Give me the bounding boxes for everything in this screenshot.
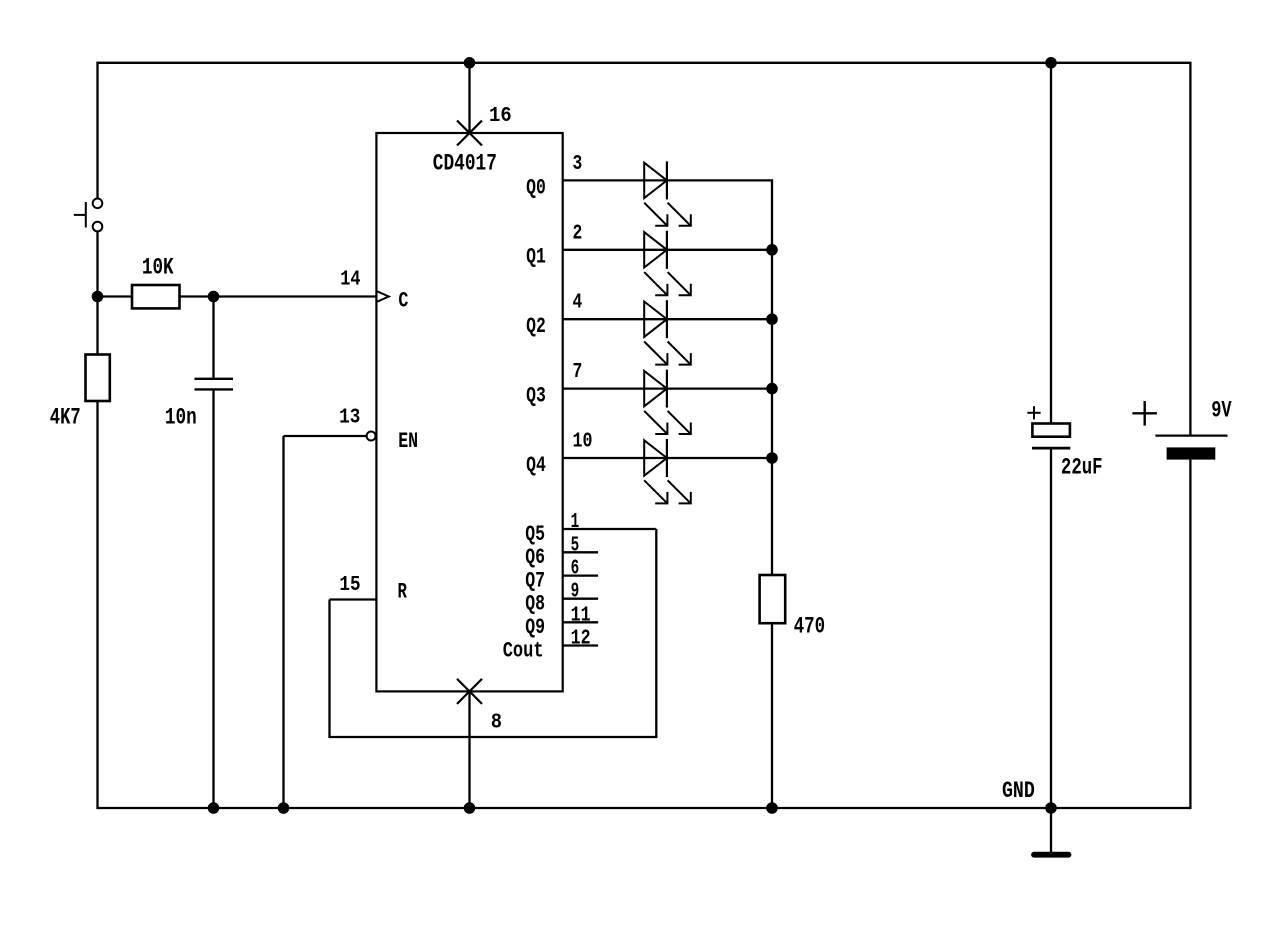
svg-text:4: 4 — [573, 292, 583, 315]
node: left rail junction to 10K — [92, 291, 104, 303]
resistor 10K — [132, 255, 180, 309]
svg-text:Q1: Q1 — [526, 245, 546, 270]
node: LED bus junction Q1 — [766, 244, 778, 256]
svg-text:Q5: Q5 — [525, 522, 545, 547]
svg-text:Q0: Q0 — [526, 175, 546, 200]
pin label Q4 pin 10 — [526, 431, 592, 478]
wire: LED cathode bus — [771, 179, 773, 575]
pin label Q0 pin 3 — [526, 153, 582, 200]
svg-text:CD4017: CD4017 — [433, 151, 497, 177]
pin label Q1 pin 2 — [526, 222, 582, 269]
svg-text:8: 8 — [491, 711, 502, 734]
node: LED bus junction Q3 — [766, 383, 778, 395]
svg-text:7: 7 — [573, 361, 583, 384]
svg-text:1: 1 — [571, 511, 580, 534]
node: LED bus junction Q4 — [766, 452, 778, 464]
resistor 4K7 — [50, 355, 110, 431]
pin stub Q9 pin 11 — [525, 604, 598, 640]
pin 8 no-connect cross — [457, 679, 502, 735]
svg-text:EN: EN — [398, 429, 418, 454]
svg-text:22uF: 22uF — [1061, 455, 1103, 481]
svg-text:470: 470 — [794, 614, 826, 640]
LED D2 on Q1 — [644, 231, 691, 295]
svg-text:10K: 10K — [142, 255, 174, 281]
wire: left rail lower segment — [96, 232, 98, 355]
svg-text:Q3: Q3 — [526, 384, 546, 409]
wire: clock net down to 10n — [212, 297, 214, 379]
pushbutton switch S1 — [74, 199, 102, 232]
svg-text:15: 15 — [339, 574, 360, 597]
svg-text:Q4: Q4 — [526, 453, 546, 478]
svg-text:11: 11 — [571, 604, 591, 627]
node: EN on bottom rail — [278, 802, 290, 814]
wire: top V+ rail — [98, 62, 1191, 64]
pin stub Q5 pin 1 — [525, 511, 656, 547]
op IC U1 CD4017 body — [376, 133, 562, 691]
wire: V+ rail right down to battery — [1189, 62, 1191, 436]
pin label Q2 pin 4 — [526, 292, 582, 339]
node: GND junction on bottom rail — [1045, 802, 1057, 814]
wire: EN net horizontal — [284, 435, 367, 437]
svg-text:Q8: Q8 — [525, 592, 545, 617]
wire: bottom GND rail — [98, 807, 1191, 809]
wire: Q2 output row — [563, 318, 772, 320]
wire: Q4 output row — [563, 457, 772, 459]
svg-text:16: 16 — [489, 105, 512, 128]
wire: Q3 output row — [563, 387, 772, 389]
wire: 10K to C input (pin 14 net) — [180, 295, 377, 297]
LED D1 on Q0 — [644, 161, 691, 225]
pin 15 reset R — [339, 574, 407, 605]
svg-text:R: R — [398, 580, 408, 605]
pin 13 EN inverted input — [339, 407, 418, 455]
svg-text:5: 5 — [571, 534, 580, 557]
wire: 470 to bottom rail — [771, 623, 773, 808]
wire: R pin to loop — [330, 598, 377, 600]
wire: reset loop left vertical — [328, 600, 330, 738]
ground GND symbol — [1002, 778, 1069, 855]
svg-text:10: 10 — [573, 431, 593, 454]
node: V+ rail junction pin16 — [464, 57, 476, 69]
wire: reset loop right vertical to Q5 — [655, 529, 657, 737]
capacitor 22uF electrolytic — [1027, 406, 1102, 480]
svg-text:6: 6 — [571, 558, 580, 581]
LED D4 on Q3 — [644, 370, 691, 434]
wire: left rail below 4K7 — [96, 401, 98, 809]
LED D3 on Q2 — [644, 300, 691, 364]
wire: V+ rail to pin 16 — [468, 63, 470, 133]
svg-text:Q2: Q2 — [526, 314, 546, 339]
battery 9V — [1132, 397, 1231, 459]
wire: left rail to 10K — [98, 295, 133, 297]
svg-text:C: C — [398, 289, 408, 314]
svg-text:3: 3 — [573, 153, 583, 176]
pin 16 no-connect cross — [457, 105, 512, 145]
node: 10n on bottom rail — [208, 802, 220, 814]
svg-text:Q7: Q7 — [525, 568, 545, 593]
pin stub Cout pin 12 — [503, 628, 598, 664]
resistor 470 — [760, 575, 826, 640]
svg-text:Q9: Q9 — [525, 615, 545, 640]
LED D5 on Q4 — [644, 439, 691, 503]
svg-text:GND: GND — [1002, 778, 1035, 804]
svg-text:2: 2 — [573, 222, 583, 245]
capacitor 10n — [165, 379, 233, 431]
wire: Q0 output row — [563, 179, 772, 181]
svg-text:13: 13 — [339, 407, 360, 430]
svg-text:Q6: Q6 — [525, 545, 545, 570]
wire: battery to bottom rail — [1189, 460, 1191, 809]
wire: 10n to bottom rail — [212, 389, 214, 808]
svg-text:4K7: 4K7 — [50, 405, 81, 431]
pin stub Q6 pin 5 — [525, 534, 598, 570]
svg-text:10n: 10n — [165, 405, 197, 431]
svg-text:9V: 9V — [1211, 397, 1232, 423]
svg-text:14: 14 — [340, 269, 360, 292]
wire: Q1 output row — [563, 249, 772, 251]
node: pin8 on bottom rail — [464, 802, 476, 814]
svg-text:12: 12 — [571, 628, 591, 651]
pin label Q3 pin 7 — [526, 361, 582, 408]
wire: pin 8 to bottom rail — [468, 691, 470, 808]
node: LED bus junction Q2 — [766, 313, 778, 325]
pin 14 clock input C — [340, 269, 408, 314]
svg-text:Cout: Cout — [503, 639, 544, 664]
wire: left rail upper segment — [96, 62, 98, 199]
wire: EN net vertical to bottom rail — [282, 436, 284, 808]
node: V+ rail junction 22uF — [1045, 57, 1057, 69]
wire: V+ rail to 22uF — [1050, 63, 1052, 424]
pin stub Q7 pin 6 — [525, 558, 598, 594]
node: 470 on bottom rail — [766, 802, 778, 814]
node: junction 10n on clock net — [208, 291, 220, 303]
wire: reset loop bottom horizontal — [328, 736, 657, 738]
wire: 22uF to bottom rail — [1050, 448, 1052, 808]
pin stub Q8 pin 9 — [525, 581, 598, 617]
svg-text:9: 9 — [571, 581, 580, 604]
